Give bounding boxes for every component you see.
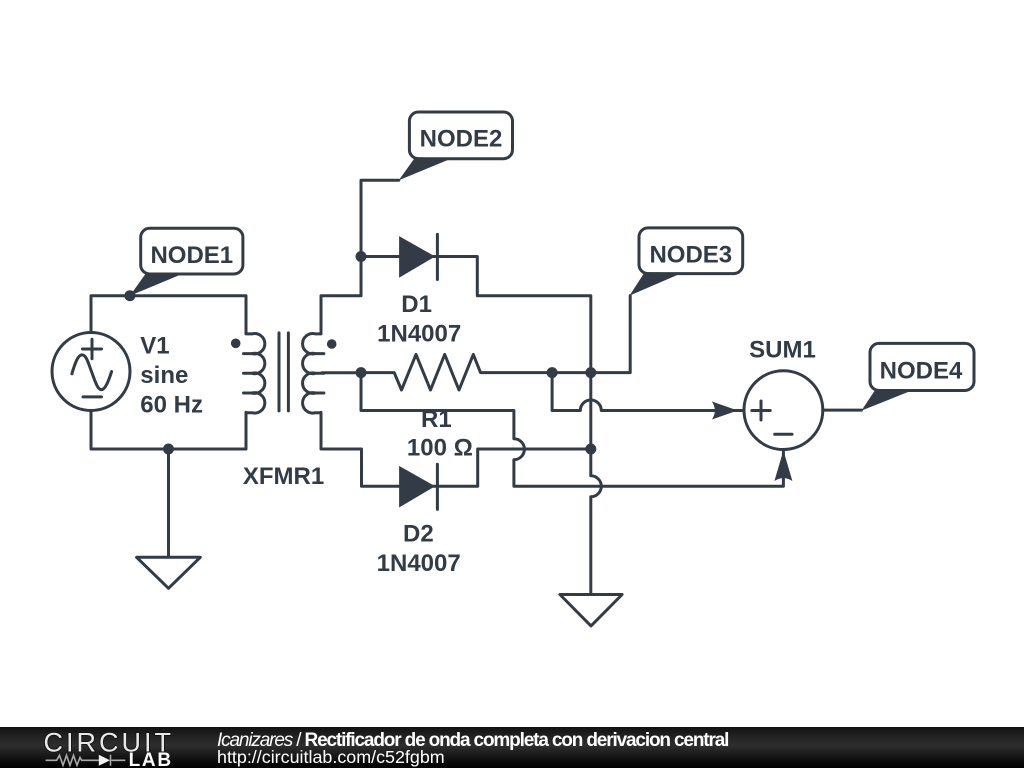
- svg-text:D1: D1: [401, 291, 432, 318]
- svg-text:NODE4: NODE4: [880, 357, 963, 384]
- svg-text:XFMR1: XFMR1: [243, 463, 324, 490]
- svg-text:V1: V1: [140, 332, 169, 359]
- svg-text:D2: D2: [403, 521, 434, 548]
- svg-text:60 Hz: 60 Hz: [140, 391, 203, 418]
- svg-text:NODE2: NODE2: [420, 125, 503, 152]
- svg-text:SUM1: SUM1: [749, 337, 816, 364]
- svg-text:NODE3: NODE3: [649, 241, 732, 268]
- svg-text:sine: sine: [140, 362, 188, 389]
- svg-text:100 Ω: 100 Ω: [407, 434, 473, 461]
- svg-text:LAB: LAB: [129, 750, 173, 768]
- svg-text:R1: R1: [421, 406, 452, 433]
- svg-text:1N4007: 1N4007: [377, 550, 461, 577]
- svg-text:NODE1: NODE1: [150, 242, 233, 269]
- svg-text:1N4007: 1N4007: [377, 320, 461, 347]
